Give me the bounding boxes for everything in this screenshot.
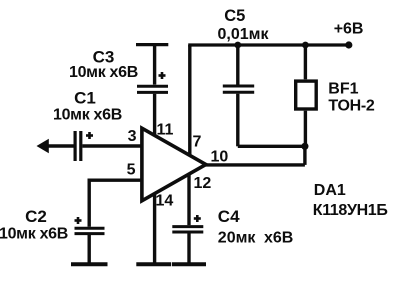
svg-text:10: 10 bbox=[211, 149, 229, 166]
junction C5/rail bbox=[234, 42, 241, 49]
capacitor C2 bbox=[75, 217, 105, 234]
junction loop/output bbox=[301, 143, 308, 150]
wire C5 bottom bbox=[236, 94, 239, 147]
svg-text:х6В: х6В bbox=[264, 230, 293, 247]
svg-text:0,01мк: 0,01мк bbox=[218, 26, 270, 43]
ground (C2) bbox=[71, 262, 108, 266]
svg-text:С4: С4 bbox=[218, 207, 240, 226]
svg-text:10мк х6В: 10мк х6В bbox=[53, 107, 122, 124]
capacitor C5 bbox=[223, 86, 254, 92]
svg-text:3: 3 bbox=[128, 128, 137, 145]
wire pin 14 to ground bbox=[153, 192, 156, 263]
input terminal arrow bbox=[37, 139, 74, 153]
wire C2 to ground bbox=[87, 235, 90, 263]
+6V rail wire bbox=[188, 43, 349, 46]
wire pin 12 to C4 bbox=[187, 174, 190, 225]
wire C4 to ground bbox=[187, 234, 190, 264]
headphone BF1 bbox=[296, 81, 317, 109]
wire pin 7 to +6V rail bbox=[188, 45, 191, 155]
wire rail to C5 bbox=[236, 45, 239, 85]
svg-text:+6В: +6В bbox=[334, 21, 364, 38]
svg-text:С1: С1 bbox=[74, 88, 96, 107]
svg-text:7: 7 bbox=[193, 134, 202, 151]
capacitor C1 bbox=[75, 131, 93, 161]
svg-text:BF1: BF1 bbox=[328, 80, 358, 97]
terminal +6V bbox=[345, 41, 352, 48]
wire C3 to pin 11 bbox=[153, 94, 156, 137]
svg-text:12: 12 bbox=[194, 175, 212, 192]
capacitor C3 bbox=[137, 72, 168, 92]
op-amp DA1 triangle bbox=[142, 128, 206, 201]
wire bottom loop bbox=[238, 145, 305, 148]
wire C1 to pin 3 bbox=[82, 144, 141, 147]
svg-text:20мк: 20мк bbox=[218, 230, 257, 247]
svg-text:С5: С5 bbox=[224, 7, 245, 25]
capacitor C4 bbox=[172, 215, 203, 232]
ground (pin 14) bbox=[136, 262, 171, 266]
ground (C4) bbox=[172, 262, 206, 266]
svg-text:DA1: DA1 bbox=[314, 182, 346, 199]
svg-text:С2: С2 bbox=[25, 207, 47, 226]
svg-text:ТОН-2: ТОН-2 bbox=[328, 98, 375, 115]
svg-text:К118УН1Б: К118УН1Б bbox=[313, 202, 388, 219]
wire BF1 bottom bbox=[304, 111, 307, 147]
wire rail to BF1 bbox=[304, 45, 307, 79]
wire pin 5 bbox=[89, 180, 141, 227]
svg-text:10мк х6В: 10мк х6В bbox=[0, 226, 68, 243]
wire output riser bbox=[303, 146, 306, 165]
junction BF1/rail bbox=[302, 42, 309, 49]
wire output pin 10 bbox=[204, 163, 305, 166]
svg-text:10мк х6В: 10мк х6В bbox=[69, 64, 138, 81]
svg-text:5: 5 bbox=[127, 162, 136, 179]
svg-text:14: 14 bbox=[156, 193, 174, 210]
wire C3 top bbox=[153, 45, 156, 85]
node: C3 top bar bbox=[136, 43, 168, 46]
